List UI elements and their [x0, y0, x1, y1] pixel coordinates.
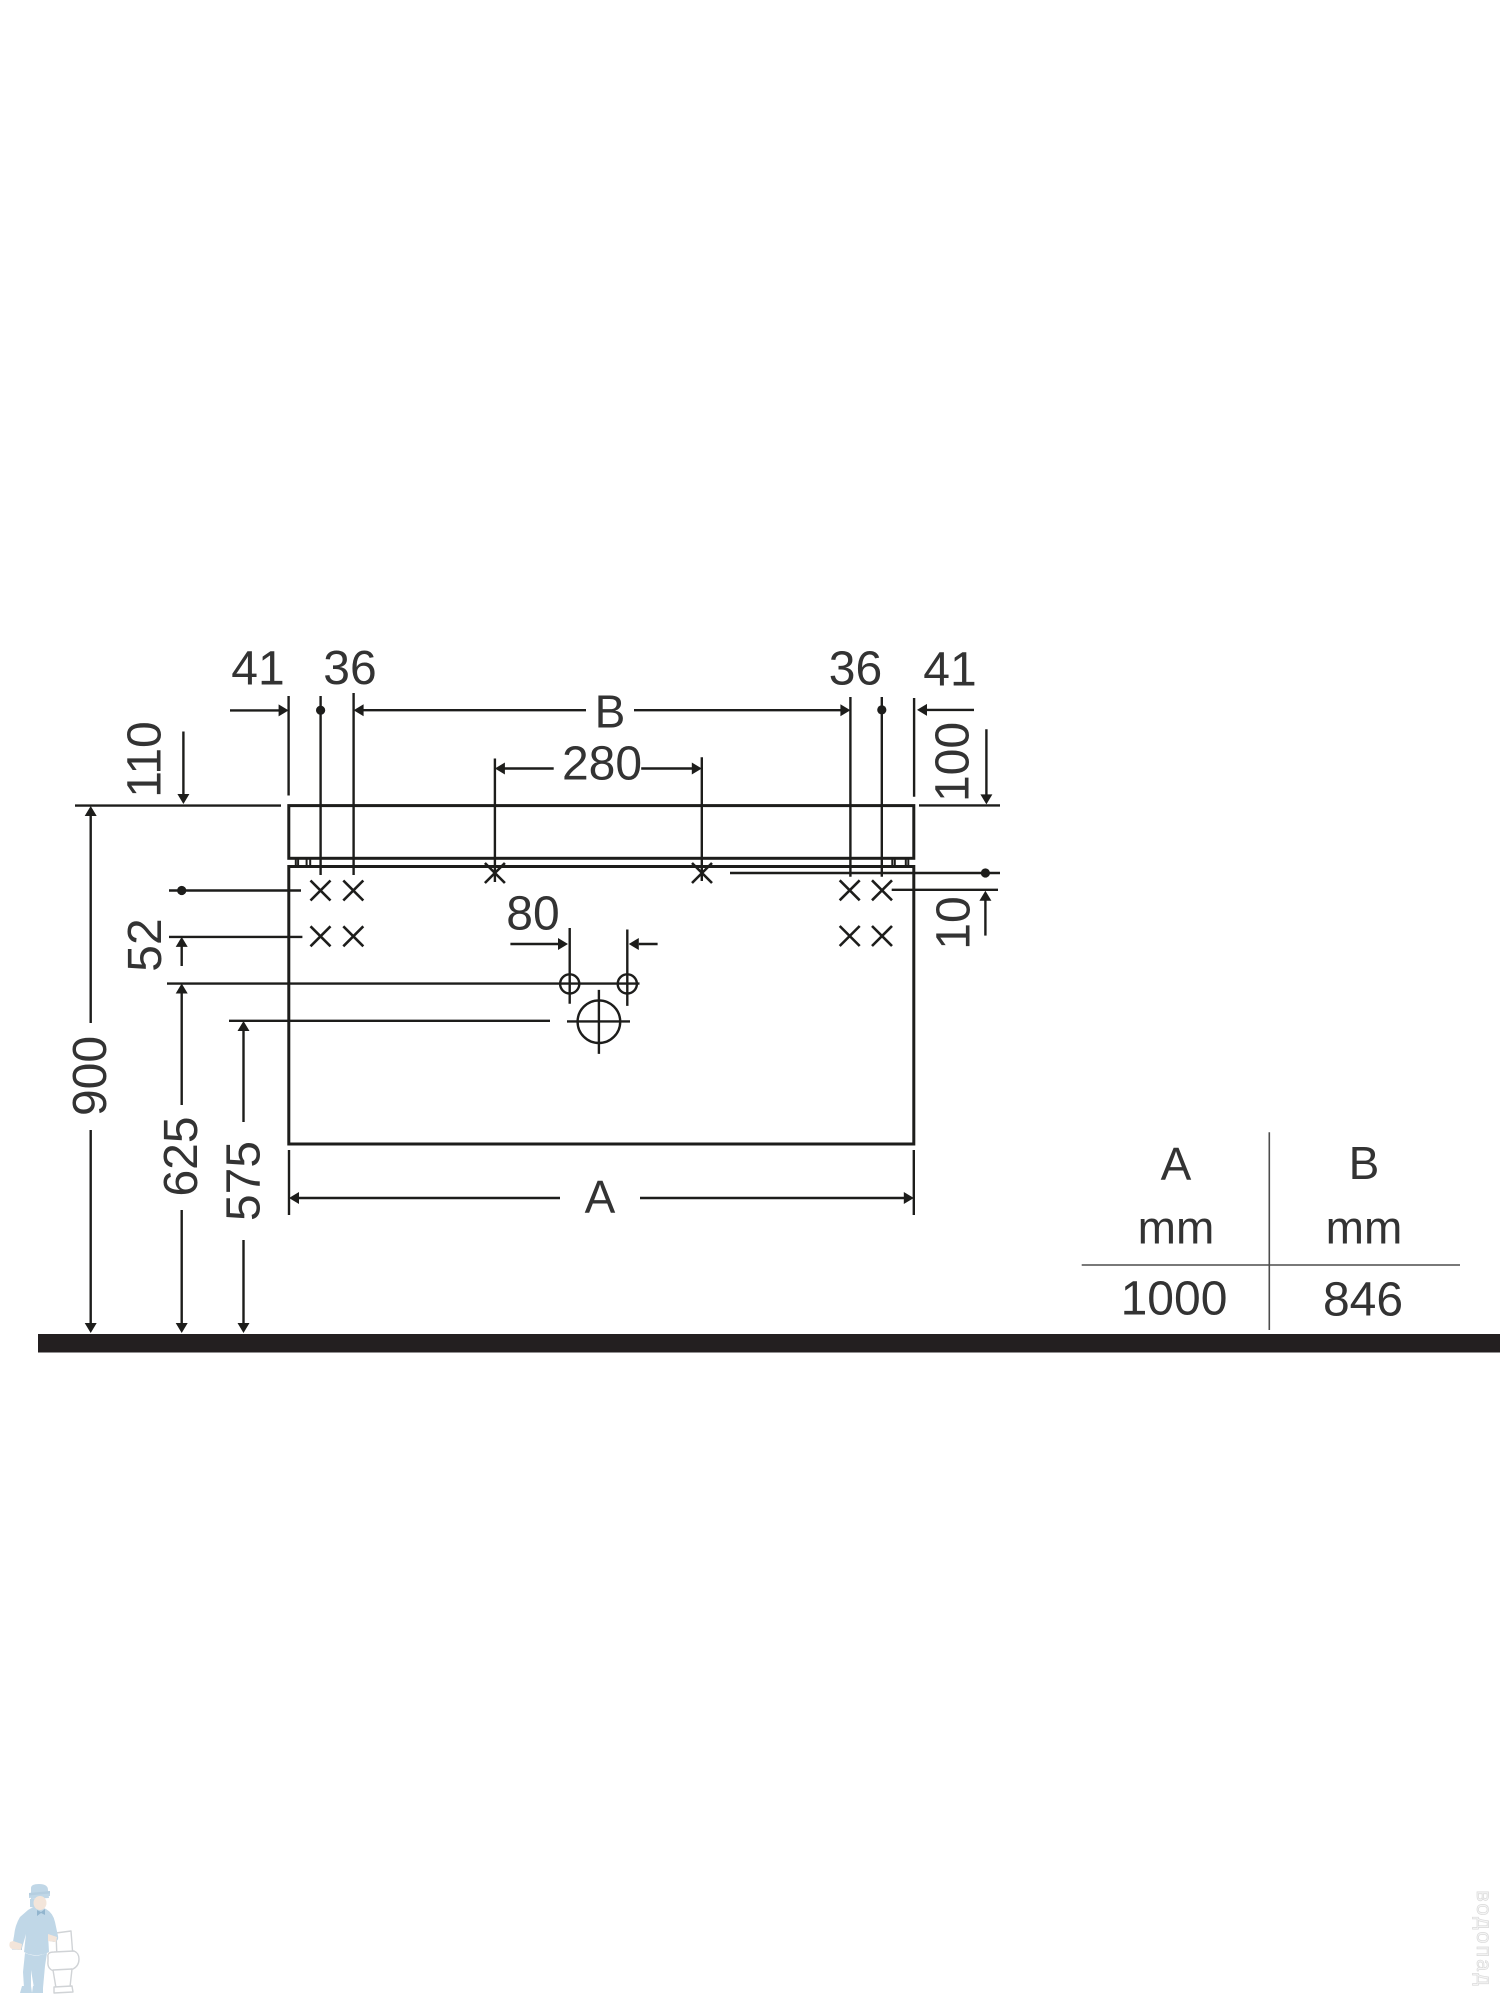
- svg-text:80: 80: [506, 888, 559, 941]
- svg-text:41: 41: [231, 643, 284, 696]
- svg-text:575: 575: [218, 1141, 271, 1221]
- svg-text:36: 36: [323, 642, 376, 695]
- svg-text:B: B: [595, 686, 626, 738]
- svg-text:900: 900: [64, 1036, 117, 1116]
- svg-text:A: A: [585, 1171, 616, 1223]
- svg-text:1000: 1000: [1121, 1273, 1228, 1326]
- svg-text:36: 36: [829, 643, 882, 696]
- svg-text:846: 846: [1323, 1274, 1403, 1327]
- svg-text:A: A: [1161, 1138, 1192, 1190]
- svg-text:280: 280: [562, 738, 642, 791]
- svg-text:mm: mm: [1326, 1202, 1403, 1254]
- svg-text:водопад: водопад: [1472, 1890, 1496, 1987]
- svg-text:mm: mm: [1138, 1202, 1215, 1254]
- svg-text:52: 52: [119, 918, 172, 971]
- svg-text:10: 10: [928, 896, 981, 949]
- svg-text:41: 41: [923, 644, 976, 697]
- svg-text:B: B: [1349, 1137, 1380, 1189]
- svg-text:110: 110: [119, 721, 172, 798]
- svg-text:100: 100: [927, 722, 980, 802]
- svg-text:625: 625: [155, 1116, 208, 1196]
